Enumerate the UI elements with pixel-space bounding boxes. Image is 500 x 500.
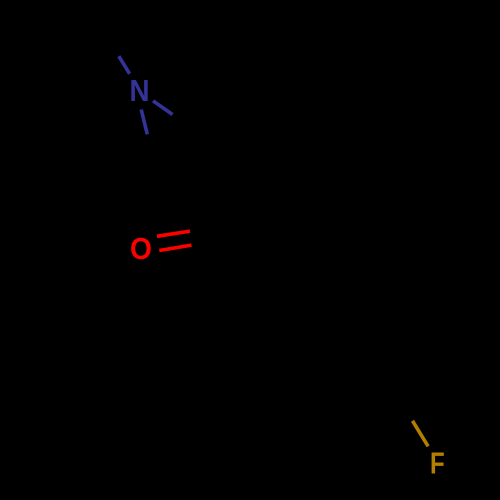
bond N-C3 (blue half) bbox=[141, 110, 147, 135]
bond CH3-N (blue half) bbox=[119, 56, 130, 74]
double bond C=O lower line (red half) bbox=[159, 245, 191, 250]
bond N-C2 (blue half) bbox=[153, 101, 173, 115]
double bond C=O upper line (red half) bbox=[157, 231, 190, 236]
svg-text:F: F bbox=[430, 446, 445, 481]
bond C-F (olive half) bbox=[413, 421, 429, 447]
svg-text:O: O bbox=[130, 232, 152, 267]
svg-text:N: N bbox=[129, 74, 149, 109]
